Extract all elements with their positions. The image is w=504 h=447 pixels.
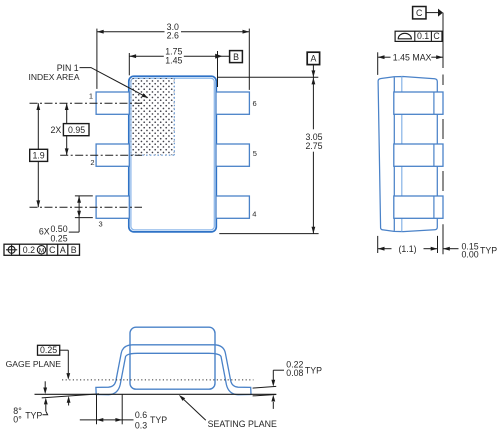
- dim 6X 0.50/0.25 dimension line: [78, 196, 80, 232]
- dim 0.95 box and text: [63, 124, 89, 136]
- svg-text:1.45 MAX: 1.45 MAX: [393, 52, 432, 62]
- dim 1.45 MAX extension line: [377, 52, 379, 75]
- dim 0.15/0.00 arrow: [443, 248, 459, 250]
- svg-text:C: C: [416, 8, 423, 18]
- svg-text:GAGE PLANE: GAGE PLANE: [6, 359, 62, 369]
- pin 5: [216, 144, 249, 166]
- svg-text:2: 2: [90, 158, 94, 167]
- hatch bottom border: [131, 154, 175, 156]
- svg-text:B: B: [71, 245, 77, 255]
- package body outline (outer): [129, 76, 217, 232]
- svg-text:0°: 0°: [13, 414, 21, 424]
- svg-text:0.25: 0.25: [40, 345, 57, 355]
- lead angle arrows: [44, 381, 46, 387]
- dim 1.9 dimension line: [37, 103, 39, 149]
- gage plane dotted line: [62, 379, 254, 381]
- centerline pin 2: [60, 154, 142, 156]
- side body parting line 1: [393, 77, 395, 231]
- svg-text:2.6: 2.6: [167, 31, 179, 41]
- dim 0.6/0.3 dimension line: [80, 419, 134, 421]
- centerline pin 3: [30, 206, 143, 208]
- SEATING PLANE leader: [184, 400, 206, 421]
- profile of surface symbol: [398, 33, 411, 39]
- svg-text:6: 6: [253, 99, 257, 108]
- svg-text:2.75: 2.75: [305, 141, 322, 151]
- centerline pin 1: [30, 102, 143, 104]
- seating plane line: [35, 393, 277, 395]
- svg-text:TYP: TYP: [25, 411, 42, 421]
- svg-text:TYP: TYP: [305, 366, 322, 376]
- dim 1.75/1.45 dimension line: [129, 55, 164, 57]
- svg-text:M: M: [39, 247, 45, 254]
- body outline: [130, 327, 215, 389]
- svg-text:0.25: 0.25: [50, 233, 67, 243]
- gage-to-seating lower arrow: [68, 399, 70, 406]
- dim 6X 0.50/0.25 extension lines: [75, 195, 93, 197]
- dim 3.0/2.6 extension lines: [96, 29, 98, 89]
- pin 1 index area hatch: [131, 78, 175, 155]
- svg-text:0.95: 0.95: [68, 125, 85, 135]
- datum box A: [307, 52, 319, 64]
- svg-text:1.9: 1.9: [32, 150, 44, 160]
- svg-text:6X: 6X: [39, 227, 50, 237]
- svg-text:INDEX AREA: INDEX AREA: [29, 72, 80, 82]
- pin 4: [216, 196, 249, 218]
- dim 3.0/2.6 dimension line: [97, 31, 165, 33]
- pin 6: [216, 92, 249, 114]
- svg-text:0.1: 0.1: [417, 31, 429, 41]
- datum C box: [413, 7, 426, 19]
- svg-text:C: C: [433, 31, 440, 41]
- svg-text:B: B: [233, 52, 239, 62]
- leader to index area: [80, 68, 143, 95]
- svg-text:(1.1): (1.1): [398, 244, 416, 254]
- side pin 3: [394, 196, 443, 218]
- dim 2X 0.95 dimension line: [66, 103, 68, 123]
- datum C leader and flag: [426, 12, 439, 14]
- side pin 2: [394, 144, 443, 166]
- svg-text:A: A: [310, 54, 316, 64]
- svg-text:C: C: [49, 245, 56, 255]
- svg-text:TYP: TYP: [150, 415, 167, 425]
- pin 3: [96, 196, 129, 218]
- svg-text:1: 1: [89, 92, 93, 101]
- svg-text:0.08: 0.08: [286, 368, 303, 378]
- svg-text:5: 5: [253, 149, 257, 158]
- dim 3.05/2.75 dimension line: [312, 65, 314, 78]
- svg-text:2X: 2X: [51, 125, 62, 135]
- svg-text:0.00: 0.00: [462, 250, 479, 260]
- dim 0.6/0.3 extension lines: [96, 395, 98, 425]
- svg-text:1.45: 1.45: [165, 55, 182, 65]
- dim 1.75/1.45 extension lines: [128, 53, 130, 75]
- side body parting line 2: [401, 76, 403, 231]
- svg-text:3: 3: [99, 220, 103, 229]
- gage plane 0.25 box: [38, 345, 60, 355]
- svg-text:0.50: 0.50: [50, 224, 67, 234]
- pin 2: [96, 144, 129, 166]
- package body outline (inner): [131, 78, 214, 230]
- feature control frame (position): [4, 244, 80, 255]
- datum box B: [230, 51, 243, 63]
- svg-text:0.3: 0.3: [135, 420, 147, 430]
- angle leader hook: [43, 411, 48, 414]
- pin 1: [96, 92, 129, 114]
- side pin 1: [394, 92, 443, 114]
- svg-text:SEATING PLANE: SEATING PLANE: [208, 419, 277, 429]
- position symbol: [8, 246, 15, 253]
- dim 1.45 MAX dimension line: [378, 56, 391, 58]
- side body outline: [378, 77, 437, 232]
- svg-text:0.2: 0.2: [23, 245, 35, 255]
- dim 0.22/0.08 arrows: [272, 370, 274, 380]
- dim 1.9 box and text: [30, 149, 48, 161]
- lead angle line: [42, 394, 99, 398]
- svg-text:0.6: 0.6: [135, 410, 147, 420]
- svg-text:4: 4: [252, 210, 256, 219]
- dim 3.05/2.75 extension lines: [217, 76, 318, 78]
- dim (1.1) extension lines: [377, 236, 379, 253]
- lead frame profile: [96, 345, 251, 395]
- lead tip plane dashed line: [442, 75, 444, 86]
- svg-text:TYP: TYP: [480, 245, 497, 255]
- feature control frame (profile): [395, 31, 442, 41]
- dim (1.1) dimension line: [378, 248, 392, 250]
- dim 0.22/0.08 extension lines: [253, 386, 277, 388]
- svg-text:A: A: [60, 245, 66, 255]
- gage plane leader: [60, 349, 69, 351]
- hatch right border: [173, 78, 175, 155]
- dim 0.15/0.00 extension line: [442, 224, 444, 254]
